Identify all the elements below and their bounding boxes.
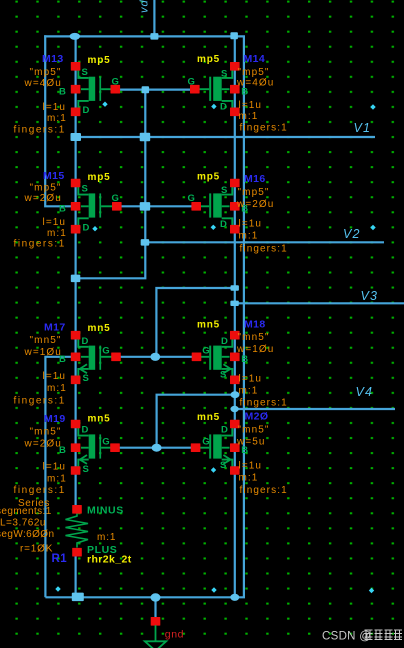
svg-text:S: S: [83, 373, 89, 384]
junction: row2 gate bus / gate-chain: [140, 202, 151, 211]
svg-text:R1: R1: [52, 553, 68, 565]
transistor M17 (nmos mp5/mn5): [14, 322, 121, 407]
svg-text:l=1u: l=1u: [43, 217, 67, 228]
svg-text:m:1: m:1: [47, 474, 67, 485]
svg-text:"mp5": "mp5": [238, 187, 270, 198]
svg-text:w=5u: w=5u: [236, 437, 266, 448]
svg-text:fingers:1: fingers:1: [240, 485, 288, 496]
svg-text:mn5: mn5: [88, 414, 111, 425]
svg-text:V1: V1: [354, 121, 372, 135]
svg-text:M2Ø: M2Ø: [245, 411, 269, 423]
junction: gate-chain / left column: [71, 275, 81, 283]
svg-text:vdd!: vdd!: [139, 0, 151, 13]
junction: right column row3-4 link: [231, 391, 240, 398]
junction J1: right column row2-3 link: [231, 285, 239, 290]
junction J2: right column V3 tap: [230, 301, 238, 306]
svg-text:D: D: [82, 425, 89, 436]
svg-text:w=1Øu: w=1Øu: [24, 347, 62, 358]
svg-text:G: G: [202, 437, 209, 448]
wire: left column through M13/M15 pins: [74, 36, 76, 509]
svg-text:MINUS: MINUS: [87, 505, 124, 517]
junction: bottom rail / vss stub: [151, 593, 161, 601]
svg-text:"mp5": "mp5": [30, 182, 62, 193]
transistor M20 (nmos mp5/mn5): [191, 411, 288, 496]
junction: vdd rail right corner: [230, 32, 238, 39]
transistor M16 (pmos mp5/mn5): [188, 172, 288, 255]
svg-text:M15: M15: [43, 170, 65, 182]
svg-text:l=1u: l=1u: [43, 462, 67, 473]
svg-text:fingers:1: fingers:1: [14, 238, 66, 249]
svg-text:M13: M13: [42, 53, 64, 65]
transistor M18 (nmos mp5/mn5): [192, 319, 288, 409]
svg-text:"mn5": "mn5": [238, 332, 270, 343]
svg-text:G: G: [202, 346, 209, 357]
wire: gate-chain vertical to left column: [76, 90, 146, 279]
svg-text:mn5: mn5: [88, 323, 111, 334]
svg-text:mn5: mn5: [197, 320, 220, 331]
wire: left outer rail upper (vdd to M15 bulk): [45, 35, 75, 206]
svg-text:m:1: m:1: [239, 111, 259, 122]
junction: right column V4 tap: [230, 406, 238, 412]
wire: row4 gate bus M19-M20: [115, 447, 196, 449]
junction: V1 / left column: [71, 133, 82, 141]
svg-text:B: B: [59, 204, 66, 215]
svg-text:segW:6ØØn: segW:6ØØn: [0, 529, 54, 540]
svg-text:w=2Øu: w=2Øu: [24, 193, 62, 204]
svg-text:M19: M19: [44, 413, 66, 425]
svg-text:M17: M17: [44, 322, 66, 334]
marker diamond M16 origin: [211, 225, 216, 230]
svg-text:D: D: [83, 105, 90, 116]
svg-text:D: D: [82, 336, 89, 347]
svg-text:fingers:1: fingers:1: [240, 123, 288, 134]
junction: row1 gate bus tap: [142, 86, 150, 93]
svg-text:m:1: m:1: [47, 383, 67, 394]
svg-text:rhr2k_2t: rhr2k_2t: [87, 554, 132, 566]
wire: VDD stub from top: [153, 0, 155, 36]
wire: net V4 horizontal: [235, 408, 395, 410]
svg-text:l=1u: l=1u: [239, 219, 263, 230]
svg-text:fingers:1: fingers:1: [240, 398, 288, 409]
marker diamond R1 anchor: [55, 586, 60, 591]
junction: row4 gate bus / link: [152, 444, 162, 452]
svg-text:mn5: mn5: [197, 412, 220, 423]
svg-text:"mp5": "mp5": [238, 67, 270, 78]
svg-text:S: S: [83, 464, 89, 475]
svg-text:V4: V4: [356, 385, 374, 399]
svg-text:M16: M16: [244, 173, 266, 185]
svg-text:segments:1: segments:1: [0, 506, 52, 517]
svg-text:"mn5": "mn5": [238, 425, 270, 436]
svg-text:G: G: [188, 77, 195, 88]
svg-text:w=2Øu: w=2Øu: [24, 439, 62, 450]
svg-text:w=1Øu: w=1Øu: [236, 344, 274, 355]
wire: right column through M14/M16/M18/M20 pins: [234, 36, 236, 598]
svg-text:w=2Øu: w=2Øu: [236, 199, 274, 210]
svg-text:M18: M18: [244, 319, 266, 331]
vss pin square: [151, 617, 161, 626]
svg-text:CSDN @: CSDN @: [322, 631, 371, 643]
junction: V2 tap: [141, 239, 150, 246]
svg-text:D: D: [83, 223, 90, 234]
svg-text:S: S: [220, 369, 226, 380]
junction: vdd rail / left column: [70, 33, 81, 40]
svg-text:l=1u: l=1u: [239, 374, 263, 385]
svg-text:S: S: [221, 185, 227, 196]
svg-text:mp5: mp5: [197, 172, 220, 183]
marker diamond V2 anchor: [370, 225, 375, 230]
wire: link J1 to row3 gate bus: [156, 288, 234, 357]
svg-text:D: D: [220, 219, 227, 230]
svg-text:gnd: gnd: [165, 628, 184, 640]
resistor R1 (rhr2k_2t): [0, 498, 132, 566]
svg-text:"mn5": "mn5": [30, 427, 62, 438]
marker diamond vss anchor: [211, 587, 216, 592]
svg-text:l=1u: l=1u: [239, 100, 263, 111]
svg-text:r=1ØK: r=1ØK: [20, 544, 53, 555]
svg-text:S: S: [82, 67, 88, 78]
wire: row1 gate bus M13-M14: [115, 88, 195, 90]
svg-text:l=1u: l=1u: [43, 371, 67, 382]
svg-text:"mn5": "mn5": [30, 335, 62, 346]
svg-text:B: B: [241, 354, 248, 365]
wire: net V2 horizontal: [145, 241, 384, 243]
transistor M13 (pmos mp5/mn5): [14, 53, 121, 135]
svg-text:G: G: [112, 193, 119, 204]
svg-text:mp5: mp5: [197, 54, 220, 65]
svg-text:V3: V3: [361, 289, 379, 303]
svg-text:mp5: mp5: [88, 55, 111, 66]
transistor M15 (pmos mp5/mn5): [14, 170, 122, 249]
wire: bottom VSS rail: [45, 596, 234, 598]
svg-text:mp5: mp5: [88, 172, 111, 183]
junction: bottom rail / resistor branch (large square): [72, 593, 84, 602]
svg-text:G: G: [188, 193, 195, 204]
wire: M17 bulk to left rail: [45, 357, 75, 598]
marker diamond anchor: [369, 588, 374, 593]
wire: top VDD rail: [44, 35, 235, 37]
svg-text:V2: V2: [343, 227, 361, 241]
svg-text:m:1: m:1: [47, 113, 67, 124]
svg-text:S: S: [220, 460, 226, 471]
svg-text:l=1u: l=1u: [43, 102, 67, 113]
marker diamond M14 origin: [211, 104, 216, 109]
svg-text:D: D: [221, 425, 228, 436]
marker diamond M13 origin: [102, 102, 107, 107]
svg-text:D: D: [221, 336, 228, 347]
junction: V1 / gate-chain: [140, 133, 151, 142]
junction: vdd rail / vdd stub: [150, 33, 158, 40]
svg-text:L=3.762u: L=3.762u: [0, 518, 46, 529]
marker diamond M20 origin: [211, 467, 216, 472]
svg-text:"mp5": "mp5": [30, 67, 62, 78]
svg-text:fingers:1: fingers:1: [14, 124, 66, 135]
wire: net V3 horizontal: [235, 302, 404, 304]
transistor M14 (pmos mp5/mn5): [188, 53, 288, 134]
wire: below resistor to bottom rail: [74, 552, 76, 598]
svg-text:G: G: [102, 437, 109, 448]
wire: link to row4 gate bus: [157, 395, 235, 448]
wire: row2 gate bus M15-M16: [117, 205, 196, 207]
wire: right outer rail: [234, 36, 244, 597]
svg-text:fingers:1: fingers:1: [240, 244, 288, 255]
wire: row3 gate bus M17-M18: [116, 356, 197, 358]
svg-text:S: S: [221, 68, 227, 79]
marker diamond V1 anchor: [370, 104, 375, 109]
svg-text:G: G: [102, 346, 109, 357]
transistor M19 (nmos mp5/mn5): [14, 413, 120, 496]
svg-text:l=1u: l=1u: [239, 461, 263, 472]
wire: VSS stub down: [154, 597, 156, 617]
svg-text:S: S: [82, 184, 88, 195]
svg-text:m:1: m:1: [239, 231, 259, 242]
svg-text:M14: M14: [244, 53, 266, 65]
svg-text:w=4Øu: w=4Øu: [236, 78, 274, 89]
svg-text:w=4Øu: w=4Øu: [24, 78, 62, 89]
junction: bottom rail / right rails: [230, 594, 239, 601]
wire: net V1 horizontal: [76, 136, 375, 138]
svg-text:fingers:1: fingers:1: [14, 485, 66, 496]
ground symbol: [145, 625, 166, 648]
svg-text:m:1: m:1: [239, 386, 259, 397]
junction: row3 gate bus / link: [150, 353, 160, 361]
svg-text:G: G: [112, 77, 119, 88]
svg-text:fingers:1: fingers:1: [14, 396, 66, 407]
svg-text:m:1: m:1: [239, 473, 259, 484]
svg-text:D: D: [220, 101, 227, 112]
svg-text:m:1: m:1: [97, 532, 116, 543]
marker diamond M15 origin: [92, 226, 97, 231]
